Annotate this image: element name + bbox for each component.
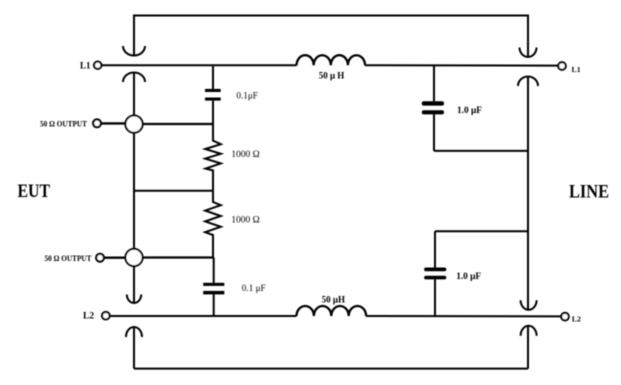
wire left vertical L1-to-connector1	[133, 73, 135, 116]
svg-text:1000 Ω: 1000 Ω	[231, 216, 259, 226]
capacitor C1 0.1uF plates	[205, 89, 221, 101]
crossover hook below L1 right	[518, 77, 538, 87]
resistor R1 1000 ohm	[205, 124, 221, 191]
wire output1 terminal to connector	[101, 122, 126, 124]
capacitor C2 0.1uF lead lower	[213, 294, 215, 316]
terminal L2 left	[102, 312, 110, 320]
capacitor C1 0.1uF lead upper	[212, 66, 214, 89]
capacitor C4 1.0uF plates	[424, 268, 446, 280]
svg-text:1000 Ω: 1000 Ω	[231, 150, 259, 160]
wire middle rail	[134, 190, 213, 192]
wire C4 feed from right vertical	[435, 230, 528, 232]
svg-text:0.1μF: 0.1μF	[236, 91, 258, 101]
wire node2 connector to C2	[143, 256, 214, 258]
terminal 50 ohm output 2	[96, 254, 104, 262]
capacitor C4 1.0uF lead lower	[434, 279, 436, 316]
crossover hook below L1 left	[123, 73, 145, 82]
svg-text:L2: L2	[83, 312, 94, 322]
wire output2 terminal to connector	[104, 257, 126, 259]
capacitor C2 0.1uF lead upper	[213, 258, 215, 283]
crossover hook below L2 right	[521, 326, 537, 336]
svg-text:50 Ω OUTPUT: 50 Ω OUTPUT	[40, 118, 87, 128]
wire bottom rail	[134, 368, 528, 370]
wire left vertical connector1 to connector2	[133, 133, 135, 249]
wire left vertical to bottom rail	[133, 327, 135, 369]
wire L2 line left segment	[110, 315, 297, 317]
connector circle 50 ohm output 1	[125, 116, 142, 133]
capacitor C4 1.0uF lead upper	[434, 231, 436, 267]
capacitor C3 1.0uF lead lower	[433, 114, 435, 150]
crossover hook above L2 left	[127, 295, 141, 303]
crossover hook above L1 left	[123, 46, 145, 56]
svg-text:EUT: EUT	[18, 181, 51, 202]
svg-text:50 Ω OUTPUT: 50 Ω OUTPUT	[45, 253, 92, 263]
crossover hook above L2 right	[521, 300, 537, 310]
wire below connector2	[133, 266, 135, 303]
wire outer top rail	[134, 16, 528, 57]
wire right long vertical	[527, 77, 529, 310]
terminal L1 right	[558, 62, 566, 70]
wire L2 line right segment	[366, 315, 561, 317]
crossover hook below L2 left	[126, 327, 142, 337]
svg-text:L1: L1	[572, 65, 581, 74]
svg-text:50 μ H: 50 μ H	[319, 71, 345, 81]
svg-text:0.1 μF: 0.1 μF	[242, 283, 266, 293]
capacitor C2 0.1uF plates	[203, 283, 224, 295]
svg-text:1.0 μF: 1.0 μF	[456, 272, 481, 282]
wire node1 connector to C1	[143, 123, 213, 125]
inductor L2 50 uH	[297, 306, 367, 316]
wire right vertical below L2	[527, 326, 529, 369]
svg-text:L1: L1	[80, 60, 91, 70]
wire C3 return to right vertical	[434, 150, 528, 152]
crossover hook above L1 right	[520, 48, 537, 57]
svg-text:50 μH: 50 μH	[322, 295, 345, 305]
inductor L1 50 uH	[297, 55, 365, 65]
wire L1 line right segment	[365, 64, 558, 66]
svg-text:L2: L2	[572, 315, 581, 324]
wire L1 line left segment	[101, 64, 296, 66]
terminal L2 right	[561, 313, 569, 321]
resistor R2 1000 ohm	[205, 191, 221, 258]
terminal L1 left	[94, 61, 101, 68]
capacitor C3 1.0uF plates	[422, 101, 444, 114]
capacitor C1 0.1uF lead lower	[212, 101, 214, 124]
svg-text:LINE: LINE	[569, 182, 609, 203]
capacitor C3 1.0uF lead upper	[433, 66, 435, 101]
connector circle 50 ohm output 2	[125, 249, 142, 266]
terminal 50 ohm output 1	[93, 119, 101, 127]
svg-text:1.0 μF: 1.0 μF	[457, 106, 482, 116]
